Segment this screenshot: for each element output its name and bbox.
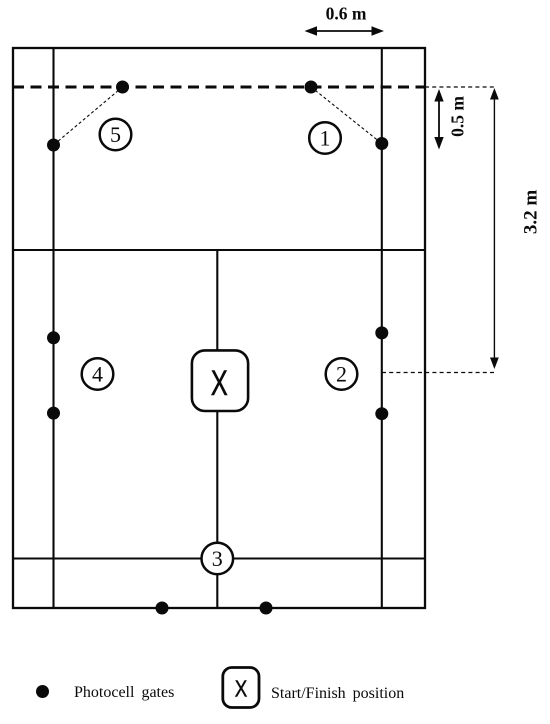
- svg-text:X: X: [235, 676, 248, 703]
- svg-text:X: X: [211, 364, 228, 403]
- lower horizontal service line: [13, 557, 425, 559]
- svg-text:4: 4: [92, 362, 103, 387]
- numbered circle 4: [82, 358, 114, 390]
- photocell gate dot (gate 4 upper): [47, 331, 60, 344]
- photocell gate dot (gate 1, on right sideline): [375, 137, 388, 150]
- numbered circle 2: [326, 358, 358, 390]
- svg-text:2: 2: [336, 362, 347, 387]
- dotted connector gate 1: [311, 87, 382, 144]
- svg-text:Photocell gates: Photocell gates: [74, 684, 174, 701]
- 3.2 m double arrow: [490, 88, 499, 369]
- thin dashed extension line at y=372.5: [382, 372, 494, 374]
- dotted connector gate 5: [54, 87, 123, 145]
- numbered circle 1: [309, 122, 341, 154]
- svg-text:1: 1: [320, 126, 331, 151]
- bold dashed gate line: [13, 86, 425, 89]
- photocell gate dot (gate 2 upper): [375, 326, 388, 339]
- right sideline (inner vertical line): [381, 48, 383, 608]
- photocell gate dot (gate 5, on dashed line): [116, 81, 129, 94]
- numbered circle 3: [202, 543, 234, 575]
- numbered circle 5: [100, 119, 132, 151]
- svg-text:0.5 m: 0.5 m: [448, 96, 468, 137]
- centre vertical line: [216, 250, 218, 608]
- svg-text:0.6 m: 0.6 m: [326, 4, 367, 24]
- legend start/finish box: [223, 668, 259, 708]
- legend photocell dot: [36, 685, 49, 698]
- svg-text:3: 3: [212, 546, 223, 571]
- start/finish X box: [192, 350, 248, 411]
- photocell gate dot (gate 5, on left sideline): [47, 139, 60, 152]
- 0.6 m double arrow: [305, 26, 385, 36]
- photocell gate dot (gate 4 lower): [47, 407, 60, 420]
- thin dashed extension line right of court at y=87: [425, 86, 494, 88]
- svg-text:5: 5: [110, 122, 121, 147]
- photocell gate dot (gate 1, on dashed line): [305, 81, 318, 94]
- svg-text:3.2 m: 3.2 m: [520, 190, 541, 235]
- photocell gate dot (gate 2 lower): [375, 407, 388, 420]
- 0.5 m double arrow: [434, 89, 443, 150]
- mid-court horizontal line: [13, 249, 425, 251]
- photocell gate dot (bottom right): [260, 602, 273, 615]
- left sideline (inner vertical line): [52, 48, 54, 608]
- photocell gate dot (bottom left): [156, 602, 169, 615]
- svg-text:Start/Finish position: Start/Finish position: [271, 685, 404, 702]
- court outer boundary: [13, 48, 425, 608]
